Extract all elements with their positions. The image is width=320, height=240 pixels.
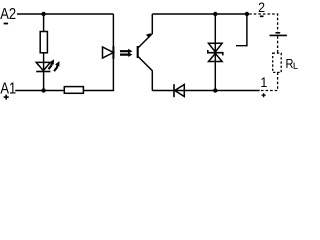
svg-text:A1: A1 xyxy=(0,81,16,98)
polarity plus (terminal 1) xyxy=(262,93,266,97)
resistor R2 (horizontal, input bottom rail) xyxy=(64,87,83,94)
diode D2 cathode bar (bottom rail) xyxy=(173,84,175,97)
polarity plus (A1) xyxy=(4,95,9,100)
svg-text:1: 1 xyxy=(260,74,267,90)
wire input bottom rail (A1) xyxy=(15,90,114,92)
junction dot (terminal 2) xyxy=(245,12,249,16)
TVS suppressor top triangle xyxy=(209,43,223,52)
wire output bottom rail xyxy=(152,90,259,92)
wire output top rail xyxy=(152,13,247,15)
junction dot (TVS bottom) xyxy=(213,88,217,92)
dashed wire terminal 2 to battery xyxy=(249,14,278,32)
wire TVS branch (vertical) xyxy=(214,14,216,91)
phototransistor collector arrowhead xyxy=(146,33,151,38)
polarity minus (A2) xyxy=(4,23,9,25)
TVS suppressor zener bar with hooks xyxy=(208,50,223,55)
open stub from terminal 2 junction xyxy=(236,14,247,46)
battery short plate xyxy=(276,32,281,34)
LED D1 emission arrow 2 xyxy=(54,61,59,71)
LED D1 cathode bar xyxy=(36,71,50,73)
load resistor RL (dashed outline) xyxy=(273,53,282,72)
dashed wire RL to terminal 1 xyxy=(260,72,278,90)
LED D1 indicator triangle xyxy=(36,62,50,70)
junction dot (input divider, top) xyxy=(41,12,45,16)
svg-text:A2: A2 xyxy=(0,6,16,23)
battery long plate xyxy=(270,34,287,36)
junction dot (input divider, bottom) xyxy=(41,88,45,92)
optocoupler light arrow 2 xyxy=(120,52,132,57)
phototransistor emitter line xyxy=(138,57,152,91)
diode D2 triangle xyxy=(175,85,185,97)
svg-text:2: 2 xyxy=(258,0,265,15)
phototransistor collector line xyxy=(138,14,152,48)
wire input top rail (A2) xyxy=(17,13,113,15)
LED D1 emission arrow 1 xyxy=(49,59,54,69)
wire optocoupler LED branch (vertical) xyxy=(112,14,114,91)
dashed wire battery to RL xyxy=(277,36,279,53)
optocoupler LED triangle xyxy=(103,47,114,58)
polarity minus (terminal 2) xyxy=(260,15,264,17)
optocoupler light arrow 1 xyxy=(120,49,132,54)
optocoupler LED cathode bar xyxy=(112,46,114,58)
wire input divider branch (vertical) xyxy=(43,14,45,91)
resistor R1 (vertical, input divider) xyxy=(40,32,47,53)
phototransistor base bar xyxy=(137,46,139,58)
TVS suppressor bottom triangle xyxy=(209,53,223,61)
svg-text:L: L xyxy=(293,61,298,72)
junction dot (TVS top) xyxy=(213,12,217,16)
